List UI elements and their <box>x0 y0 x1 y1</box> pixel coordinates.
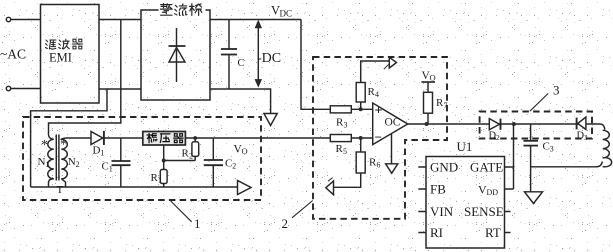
resistor R6 <box>334 138 366 187</box>
svg-text:2: 2 <box>189 152 193 161</box>
svg-text:6: 6 <box>377 161 381 170</box>
node dot R5/R6 <box>359 136 363 140</box>
U1 pin stubs right <box>505 167 514 233</box>
resistor R2 <box>192 138 199 161</box>
resistor R4 <box>356 61 389 109</box>
svg-text:EMI: EMI <box>49 51 72 65</box>
U1 box <box>426 157 505 249</box>
AC terminal top <box>6 17 10 21</box>
svg-text:SENSE: SENSE <box>464 204 504 219</box>
U1 pin stubs left <box>418 167 426 233</box>
svg-text:N: N <box>38 156 46 168</box>
diode D1 <box>66 131 143 145</box>
svg-text:1: 1 <box>45 160 49 169</box>
ground under op-amp <box>386 134 398 173</box>
inductor coil <box>601 124 612 167</box>
wire bridge to VDC corner <box>210 19 301 21</box>
svg-text:2: 2 <box>232 162 236 171</box>
CJK pseudo-glyphs <box>45 3 205 143</box>
svg-text:T: T <box>57 184 64 196</box>
svg-text:4: 4 <box>375 90 379 99</box>
EMI filter box <box>41 5 100 104</box>
svg-text:3: 3 <box>550 145 554 154</box>
wire primary tee from AC bottom <box>31 89 107 187</box>
dashed box 1 <box>23 117 261 200</box>
leader line label 1 <box>171 201 192 222</box>
svg-text:1: 1 <box>101 149 105 158</box>
transformer winding N2 <box>61 138 67 187</box>
node dot regulator/R1/R2 <box>162 159 166 163</box>
svg-text:*: * <box>41 138 48 153</box>
wire VDC down to box2 input <box>301 20 330 110</box>
svg-text:7: 7 <box>444 101 448 110</box>
resistor R5 <box>330 135 372 142</box>
svg-text:3: 3 <box>344 121 348 130</box>
dashed box 3 <box>480 112 592 139</box>
capacitor C1 <box>112 138 131 187</box>
wire AC bottom to EMI <box>11 88 41 90</box>
transformer core <box>56 135 59 181</box>
svg-text:O: O <box>242 146 248 156</box>
node dot opamp/R7 <box>425 122 429 126</box>
svg-text:3: 3 <box>584 133 588 142</box>
svg-text:1: 1 <box>194 216 201 231</box>
svg-text:3: 3 <box>553 83 560 98</box>
capacitor C2 <box>204 138 223 187</box>
rectifier bridge box <box>141 10 210 100</box>
svg-text:C: C <box>238 58 245 69</box>
svg-text:2: 2 <box>76 160 80 169</box>
svg-text:D: D <box>93 145 101 157</box>
svg-text:*: * <box>60 138 67 153</box>
svg-text:FB: FB <box>430 182 446 197</box>
leader line label 3 <box>530 93 548 111</box>
svg-text:-DC: -DC <box>257 51 281 66</box>
wire AC top to EMI <box>11 19 41 21</box>
wire node to R2 bottom <box>164 160 196 162</box>
svg-text:RI: RI <box>430 225 443 240</box>
capacitor C3 <box>524 124 539 192</box>
connector arrow top of box2 <box>389 57 396 68</box>
svg-text:RT: RT <box>485 225 501 240</box>
transformer T winding N1 <box>48 135 54 187</box>
op-amp output wire <box>408 123 601 125</box>
diode inside bridge <box>169 28 186 82</box>
label wen-ya-qi (regulator) <box>147 133 183 142</box>
wire D2 node down to VDD <box>513 124 515 189</box>
secondary rail out of regulator <box>185 137 330 139</box>
wire primary tee from AC top <box>49 20 121 136</box>
AC terminal bottom <box>6 86 10 90</box>
node dot R3/R4 <box>359 107 363 111</box>
wire EMI to bridge top <box>99 19 141 21</box>
svg-text:C: C <box>543 141 550 153</box>
svg-text:~AC: ~AC <box>0 47 26 62</box>
tick near left connector arrow <box>328 178 333 182</box>
diode D2 <box>489 119 500 130</box>
svg-text:DD: DD <box>487 188 499 197</box>
node dot D2/VDD <box>512 122 516 126</box>
svg-text:O: O <box>430 73 436 83</box>
connector arrow left (box2 bottom) <box>326 181 334 195</box>
bottom rail box1 <box>31 186 238 188</box>
svg-text:DC: DC <box>280 9 293 19</box>
wire C3 junction to inductor bottom <box>531 162 603 167</box>
dashed box 2 (L-shape) <box>313 57 447 219</box>
svg-text:1: 1 <box>109 165 113 174</box>
resistor R1 <box>160 161 167 188</box>
svg-text:OC: OC <box>385 117 401 129</box>
svg-text:VIN: VIN <box>430 204 454 219</box>
svg-text:GND: GND <box>430 160 458 175</box>
ground arrow below C3 <box>525 192 543 204</box>
-DC dimension arrow <box>256 22 261 86</box>
svg-text:U1: U1 <box>457 139 473 154</box>
connector arrow right (box1 output) <box>238 181 252 195</box>
node dot R2 top <box>193 136 197 140</box>
ground arrow (bridge minus) <box>264 114 277 126</box>
tick near top connector arrow <box>384 64 390 69</box>
resistor R7 with Vo terminal <box>421 82 435 124</box>
svg-text:N: N <box>68 156 76 168</box>
svg-text:GATE: GATE <box>470 160 503 175</box>
capacitor C <box>221 20 237 90</box>
label lü-bo-qi (filter) EMI box <box>45 40 56 49</box>
op-amp OC <box>373 103 408 145</box>
svg-text:−: − <box>375 130 382 145</box>
diode D3 <box>577 117 586 129</box>
svg-text:2: 2 <box>496 133 500 142</box>
label zheng-liu-qiao (rectifier bridge) <box>159 3 206 17</box>
wire bridge minus output <box>210 89 271 114</box>
svg-text:C: C <box>102 161 109 173</box>
wire EMI to bridge bottom <box>99 88 141 90</box>
regulator bottom pin <box>163 145 165 161</box>
svg-text:1: 1 <box>158 176 162 185</box>
svg-text:5: 5 <box>343 147 347 156</box>
svg-text:+: + <box>375 104 383 119</box>
regulator box (wen-ya-qi) <box>143 132 186 146</box>
leader line label 2 <box>292 201 313 218</box>
svg-text:C: C <box>225 158 232 170</box>
svg-text:2: 2 <box>282 216 289 231</box>
resistor R3 <box>330 106 372 113</box>
